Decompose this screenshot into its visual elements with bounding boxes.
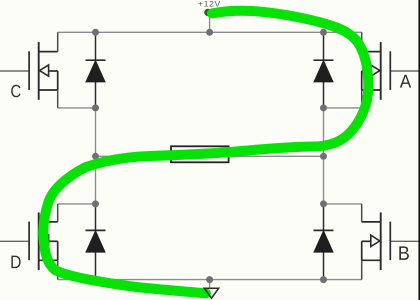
wire motor left lead <box>96 155 172 157</box>
wire gate lead of A (to right edge) <box>390 70 420 72</box>
wire +12V stem <box>209 14 211 32</box>
label C <box>11 85 20 98</box>
diode D2 (top-right freewheel) <box>314 32 334 108</box>
node dot left upper <box>92 104 99 111</box>
wire bottom rail GND <box>58 279 362 281</box>
transistor C (top-left MOSFET) <box>29 32 58 108</box>
node dot right lower <box>320 200 327 207</box>
node dot bottom-right rail <box>320 276 327 283</box>
diode D3 (bottom-left freewheel) <box>86 204 106 280</box>
wire gate lead of D (from left edge) <box>0 240 29 242</box>
wire left column vertical <box>95 108 97 204</box>
wire left lower node row <box>58 203 96 205</box>
transistor B (bottom-right MOSFET, mirrored) <box>362 204 391 280</box>
wire gate lead of C (from left edge) <box>0 70 29 72</box>
node dot bottom-left rail <box>92 276 99 283</box>
wire green current flow path <box>43 11 368 294</box>
resistor R1 (motor load) <box>171 146 229 162</box>
border right edge <box>418 0 420 300</box>
wire right lower node row <box>324 203 363 205</box>
diode D1 (top-left freewheel) <box>86 32 106 108</box>
transistor D (bottom-left MOSFET) <box>29 204 58 280</box>
label A <box>400 75 411 88</box>
wire top rail +12V <box>58 31 362 33</box>
label D <box>11 256 20 269</box>
node dot left lower <box>92 200 99 207</box>
transistor A (top-right MOSFET, mirrored) <box>362 32 391 108</box>
label B <box>399 246 409 260</box>
wire motor right lead <box>229 155 324 157</box>
node dot top-right rail <box>320 29 327 36</box>
node +12V start dot (dark green) <box>204 9 211 16</box>
wire right upper node row <box>324 107 363 109</box>
node dot right mid <box>320 153 327 160</box>
wire gate lead of B (to right edge) <box>390 240 420 242</box>
node dot bottom-center rail <box>206 276 213 283</box>
node dot top-center rail <box>206 29 213 36</box>
wire right column vertical <box>323 108 325 204</box>
ground symbol <box>204 288 218 298</box>
node dot left mid <box>92 153 99 160</box>
wire ground stem <box>209 280 211 289</box>
+12V label <box>198 1 220 7</box>
node dot top-left rail <box>92 29 99 36</box>
wire left upper node row <box>58 107 96 109</box>
diode D4 (bottom-right freewheel) <box>314 204 334 280</box>
node dot right upper <box>320 104 327 111</box>
